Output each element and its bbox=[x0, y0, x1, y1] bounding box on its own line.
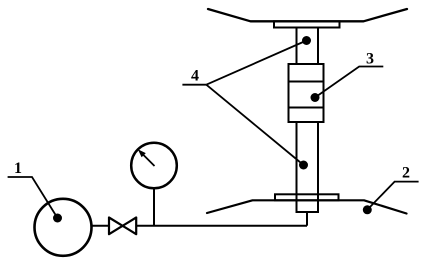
svg-text:2: 2 bbox=[402, 165, 410, 182]
label 3 leader bbox=[315, 67, 383, 98]
node: dot on pump bbox=[53, 214, 62, 223]
upper pressure pad column (item 4, upper) bbox=[297, 28, 319, 65]
jack base block bottom edge bbox=[296, 211, 320, 213]
svg-text:1: 1 bbox=[14, 160, 22, 177]
upper crosshead (press frame top beam) bbox=[208, 9, 407, 21]
node: dot at platen edge (item 2) bbox=[363, 205, 372, 214]
lower pressure pad column (item 4, lower) bbox=[297, 122, 319, 212]
svg-text:4: 4 bbox=[191, 68, 199, 85]
upper platen bar bbox=[274, 21, 340, 27]
node: dot on lower pad bbox=[299, 161, 308, 170]
label 4 leader bbox=[182, 41, 306, 166]
svg-text:3: 3 bbox=[366, 51, 374, 68]
pump P1 bbox=[35, 199, 92, 256]
jack flange bar bbox=[275, 194, 339, 200]
dynamometer body U3 bbox=[289, 64, 324, 122]
pipe: gauge stem bbox=[153, 188, 155, 226]
label 2 leader bbox=[367, 182, 418, 210]
lower platen (item 2) bbox=[207, 200, 407, 213]
node: dot on dynamometer bbox=[311, 93, 320, 102]
gauge needle bbox=[138, 149, 155, 166]
node: dot on upper pad bbox=[302, 36, 311, 45]
valve V1 (bowtie) bbox=[109, 218, 136, 235]
label 1 leader bbox=[8, 177, 58, 218]
pipe: pump to valve bbox=[92, 225, 110, 227]
pressure gauge body bbox=[131, 143, 177, 189]
pipe: valve to jack bbox=[136, 225, 307, 227]
pipe: drop from jack base bbox=[306, 212, 308, 226]
